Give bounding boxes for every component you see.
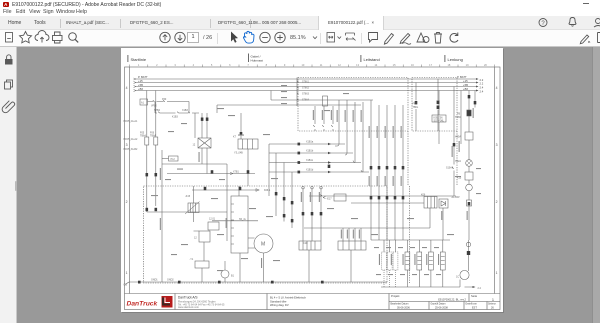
svg-text:DanTruck: DanTruck <box>127 301 158 308</box>
svg-text:GND2: GND2 <box>167 279 174 282</box>
svg-text:12: 12 <box>338 63 341 67</box>
svg-text:HF05_2A-A2: HF05_2A-A2 <box>124 138 138 141</box>
svg-text:4: 4 <box>193 63 195 67</box>
svg-text:S7661: S7661 <box>302 81 310 84</box>
svg-text:1C: 1C <box>456 276 459 279</box>
svg-text:10: 10 <box>301 63 304 67</box>
svg-text:Standard tiller: Standard tiller <box>270 299 287 303</box>
svg-text:11: 11 <box>320 63 323 67</box>
svg-text:Seite: Seite <box>471 294 478 298</box>
svg-text:2: 2 <box>126 200 128 204</box>
svg-text:BL 4 + 5 LV, Antrieb Elektrisc: BL 4 + 5 LV, Antrieb Elektrisch <box>270 296 306 300</box>
svg-text:5: 5 <box>211 63 213 67</box>
svg-text:+5B: +5B <box>463 83 468 87</box>
svg-text:4: 4 <box>496 86 498 90</box>
svg-text:Geprüft Datum: Geprüft Datum <box>431 303 446 306</box>
svg-text:S7662: S7662 <box>302 87 310 90</box>
svg-text:1: 1 <box>138 63 140 67</box>
svg-text:3: 3 <box>496 143 498 147</box>
svg-text:3: 3 <box>174 63 176 67</box>
svg-text:2.4: 2.4 <box>478 287 482 290</box>
svg-text:9: 9 <box>284 63 286 67</box>
svg-text:S07/P06L: S07/P06L <box>434 119 445 122</box>
svg-text:H05A: H05A <box>455 136 461 139</box>
svg-text:19: 19 <box>466 63 469 67</box>
svg-text:S7663: S7663 <box>302 93 310 96</box>
svg-text:2: 2 <box>156 63 158 67</box>
svg-text:7: 7 <box>247 63 249 67</box>
svg-text:H02A: H02A <box>455 160 461 163</box>
svg-text:+BX: +BX <box>138 87 143 91</box>
svg-text:AL-BAT: AL-BAT <box>452 196 461 199</box>
svg-text:3: 3 <box>126 143 128 147</box>
svg-text:20: 20 <box>484 63 487 67</box>
svg-text:Lenkung: Lenkung <box>448 57 463 62</box>
svg-text:15: 15 <box>393 63 396 67</box>
svg-text:S7664: S7664 <box>302 99 310 102</box>
svg-text:TB6L: TB6L <box>413 106 419 109</box>
svg-text:1: 1 <box>492 298 494 302</box>
svg-text:1: 1 <box>496 271 498 275</box>
svg-text:13: 13 <box>356 63 359 67</box>
svg-text:Leitstand: Leitstand <box>364 57 380 62</box>
svg-text:K06.1: K06.1 <box>264 189 271 192</box>
svg-text:S5_4x: S5_4x <box>239 218 247 221</box>
svg-text:S10A6: S10A6 <box>446 167 454 170</box>
svg-text:OB: OB <box>124 284 128 287</box>
svg-text:B1: B1 <box>231 275 235 278</box>
svg-text:K50: K50 <box>162 98 167 101</box>
svg-text:12.01: 12.01 <box>209 218 216 221</box>
svg-text:TB6N: TB6N <box>455 116 461 119</box>
svg-text:Projekt: Projekt <box>391 294 400 298</box>
svg-text:A1: A1 <box>141 102 145 105</box>
svg-text:-Y1: -Y1 <box>190 258 194 261</box>
svg-text:X1B1b: X1B1b <box>306 150 314 153</box>
svg-text:HF05_3A-B2: HF05_3A-B2 <box>124 148 138 151</box>
svg-text:E9107000122, BL, rev.2: E9107000122, BL, rev.2 <box>438 298 466 302</box>
svg-text:Bearbeitet Datum: Bearbeitet Datum <box>391 303 409 306</box>
svg-text:6: 6 <box>229 63 231 67</box>
svg-text:+BX: +BX <box>463 87 468 91</box>
svg-text:12: 12 <box>194 237 197 240</box>
svg-text:P. BATT: P. BATT <box>457 75 467 79</box>
svg-text:8: 8 <box>266 63 268 67</box>
svg-text:-K15: -K15 <box>185 195 191 198</box>
svg-text:DanTruck A/S: DanTruck A/S <box>178 296 198 300</box>
svg-text:GND1: GND1 <box>151 279 158 282</box>
svg-text:TB6A: TB6A <box>150 134 156 137</box>
svg-text:Wiring diag. DV: Wiring diag. DV <box>270 303 289 307</box>
svg-text:05-06-2006: 05-06-2006 <box>397 307 410 310</box>
svg-text:+5B: +5B <box>138 83 143 87</box>
svg-text:2.4: 2.4 <box>480 86 484 90</box>
svg-text:Erstellt von: Erstellt von <box>466 303 478 306</box>
svg-text:14: 14 <box>374 63 377 67</box>
svg-text:2.2: 2.2 <box>480 82 484 86</box>
svg-text:16: 16 <box>411 63 414 67</box>
svg-text:X1B1a: X1B1a <box>306 141 314 144</box>
svg-text:2.4: 2.4 <box>480 90 484 94</box>
svg-text:+15: +15 <box>463 79 468 83</box>
svg-text:K15: K15 <box>457 177 462 180</box>
svg-text:www.dantruck.com: www.dantruck.com <box>178 306 199 309</box>
svg-text:K7: K7 <box>233 136 237 139</box>
svg-text:=5.2: =5.2 <box>170 158 175 161</box>
svg-text:Hubmast: Hubmast <box>251 59 264 63</box>
svg-text:STB4: STB4 <box>154 109 161 112</box>
svg-text:4: 4 <box>126 86 128 90</box>
svg-text:12: 12 <box>193 144 196 147</box>
svg-text:K06: K06 <box>421 193 426 196</box>
svg-text:HF05_2A-A1: HF05_2A-A1 <box>124 120 138 123</box>
svg-text:C10: C10 <box>303 242 308 245</box>
svg-text:YS_04B: YS_04B <box>234 152 243 155</box>
svg-text:2.2: 2.2 <box>480 78 484 82</box>
svg-text:18: 18 <box>447 63 450 67</box>
svg-text:P. BATT: P. BATT <box>138 75 148 79</box>
svg-text:X1B1d: X1B1d <box>306 169 314 172</box>
svg-text:1: 1 <box>126 271 128 275</box>
svg-text:Seitenz.: Seitenz. <box>488 303 497 306</box>
svg-text:X1B1c: X1B1c <box>306 159 314 162</box>
svg-text:X1B3: X1B3 <box>182 109 189 112</box>
svg-text:EST: EST <box>472 307 477 310</box>
svg-text:-E17: -E17 <box>327 198 333 201</box>
svg-text:+15: +15 <box>138 79 143 83</box>
svg-text:Startlinie: Startlinie <box>131 57 147 62</box>
svg-text:VF02: VF02 <box>151 104 157 107</box>
svg-text:2: 2 <box>496 200 498 204</box>
svg-text:17: 17 <box>429 63 432 67</box>
svg-text:TB6A: TB6A <box>140 134 146 137</box>
svg-text:25-06-2008: 25-06-2008 <box>435 307 448 310</box>
svg-text:K1B3: K1B3 <box>172 115 179 118</box>
svg-text:X7B1: X7B1 <box>233 171 240 174</box>
svg-text:M: M <box>261 242 265 248</box>
